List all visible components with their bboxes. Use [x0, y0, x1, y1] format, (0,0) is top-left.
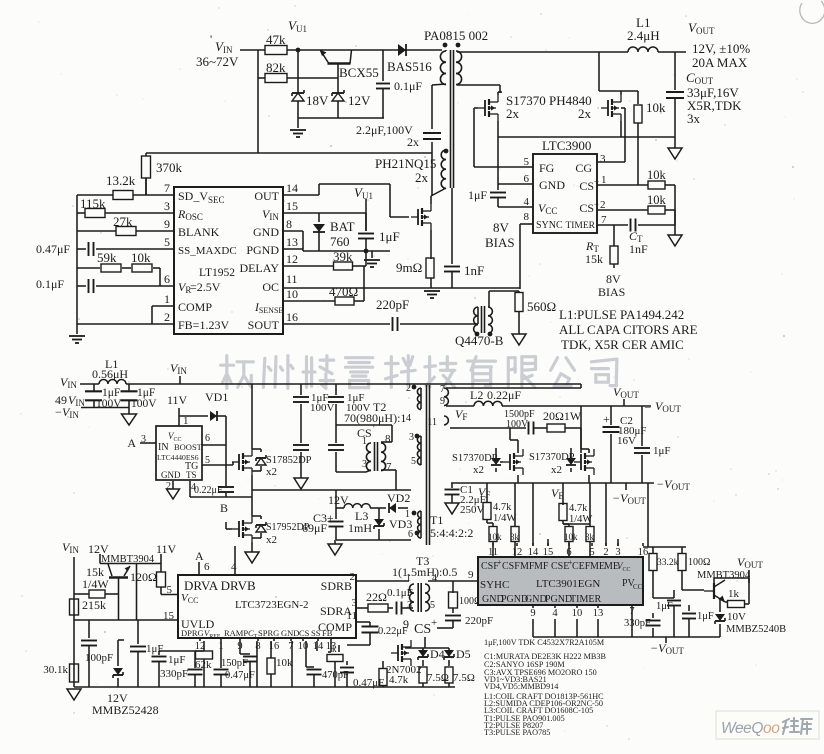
svg-text:6: 6 [524, 173, 530, 185]
svg-text:12: 12 [286, 252, 298, 266]
svg-text:−VOUT: −VOUT [656, 477, 690, 492]
svg-text:13: 13 [593, 608, 604, 619]
svg-text:3: 3 [407, 600, 412, 611]
svg-text:CSF: CSF [502, 561, 520, 572]
svg-text:8V: 8V [493, 220, 510, 235]
svg-text:370k: 370k [156, 160, 183, 175]
svg-text:1k: 1k [728, 588, 740, 600]
svg-text:D4: D4 [430, 647, 445, 661]
svg-text:9: 9 [530, 608, 535, 619]
svg-text:VF: VF [455, 407, 467, 422]
svg-text:VD2: VD2 [387, 491, 410, 505]
svg-text:1(1.5mH):0.5: 1(1.5mH):0.5 [392, 565, 457, 579]
svg-text:VF: VF [478, 485, 490, 500]
svg-text:11: 11 [286, 272, 298, 286]
svg-text:–: – [644, 401, 651, 413]
svg-text:ALL CAPA CITORS ARE: ALL CAPA CITORS ARE [559, 322, 698, 337]
svg-text:SD_V: SD_V [178, 189, 208, 203]
svg-text:1: 1 [601, 174, 607, 186]
svg-text:DPRG: DPRG [181, 628, 204, 638]
svg-text:10: 10 [572, 608, 583, 619]
svg-text:GND: GND [253, 225, 279, 239]
svg-text:4: 4 [406, 413, 411, 424]
svg-text:69μF: 69μF [302, 521, 327, 535]
svg-text:10V: 10V [727, 611, 746, 623]
svg-text:1: 1 [406, 573, 411, 584]
svg-text:WeeQoo: WeeQoo [721, 720, 780, 737]
svg-text:9: 9 [164, 217, 170, 231]
svg-text:760: 760 [330, 234, 350, 249]
svg-text:CG: CG [575, 161, 592, 175]
svg-text:SYHC: SYHC [480, 579, 509, 591]
svg-text:VIN: VIN [68, 393, 85, 408]
svg-text:BAS516: BAS516 [387, 59, 432, 74]
svg-text:CS: CS [299, 628, 310, 638]
svg-text:2: 2 [350, 571, 356, 583]
svg-text:10k: 10k [276, 657, 293, 669]
svg-text:2x: 2x [506, 106, 520, 121]
svg-text:OC: OC [262, 280, 279, 294]
svg-text:MF: MF [534, 561, 549, 572]
svg-text:70(980μH):1: 70(980μH):1 [344, 411, 406, 425]
svg-text:12V, ±10%: 12V, ±10% [692, 41, 750, 56]
svg-text:3: 3 [409, 432, 414, 443]
svg-text:16V: 16V [617, 435, 636, 447]
svg-text:TS: TS [186, 470, 197, 480]
svg-text:0.1μF: 0.1μF [36, 277, 64, 291]
svg-text:10k: 10k [564, 532, 578, 542]
svg-text:TIMER: TIMER [565, 221, 595, 231]
svg-text:L1:PULSE PA1494.242: L1:PULSE PA1494.242 [559, 307, 684, 322]
svg-text:12: 12 [512, 547, 523, 558]
svg-text:36~72V: 36~72V [196, 54, 239, 69]
svg-text:15: 15 [543, 547, 554, 558]
svg-text:COMP: COMP [178, 300, 212, 314]
svg-text:PGND: PGND [246, 243, 279, 257]
svg-text:ISENSE: ISENSE [254, 302, 283, 315]
svg-text:1nF: 1nF [629, 242, 648, 256]
svg-text:LTC3900: LTC3900 [542, 138, 591, 153]
svg-text:1μF: 1μF [168, 654, 186, 666]
svg-text:B: B [220, 501, 228, 515]
svg-text:GND: GND [161, 470, 181, 480]
svg-text:x2: x2 [473, 464, 484, 476]
svg-text:TDK, X5R CER AMIC: TDK, X5R CER AMIC [561, 337, 684, 352]
svg-text:VOUT: VOUT [613, 385, 639, 400]
svg-text:3: 3 [615, 547, 620, 558]
svg-text:BLANK: BLANK [178, 225, 220, 239]
svg-text:BIAS: BIAS [598, 285, 625, 299]
svg-text:1μF,100V TDK C4532X7R2A105M: 1μF,100V TDK C4532X7R2A105M [484, 638, 605, 647]
svg-text:6: 6 [164, 272, 170, 286]
svg-text:15: 15 [163, 610, 175, 622]
svg-text:RAMP: RAMP [224, 628, 248, 638]
svg-text:CS: CS [414, 622, 431, 637]
svg-text:MMBT3904: MMBT3904 [697, 570, 751, 581]
svg-text:+: + [603, 412, 610, 426]
svg-text:5: 5 [411, 456, 416, 467]
svg-text:16: 16 [286, 310, 298, 324]
svg-text:1μF: 1μF [468, 188, 487, 202]
svg-text:2.2μF,100V: 2.2μF,100V [356, 123, 413, 137]
svg-text:13.2k: 13.2k [106, 173, 136, 188]
svg-text:VIN: VIN [262, 207, 279, 222]
svg-text:CEF: CEF [572, 561, 591, 572]
svg-text:4.7k: 4.7k [493, 502, 512, 513]
svg-text:11: 11 [346, 610, 357, 622]
svg-text:T1: T1 [430, 513, 443, 527]
svg-text:SS_MAXDC: SS_MAXDC [178, 245, 237, 257]
svg-text:DRVA DRVB: DRVA DRVB [184, 578, 256, 593]
svg-text:2: 2 [600, 199, 606, 211]
svg-text:20A MAX: 20A MAX [692, 55, 748, 70]
svg-text:S17370DP: S17370DP [452, 453, 498, 464]
svg-text:FB=1.23V: FB=1.23V [178, 318, 229, 332]
svg-text:LTC3723EGN-2: LTC3723EGN-2 [235, 599, 309, 611]
svg-text:1mH: 1mH [348, 521, 372, 535]
svg-text:10k: 10k [488, 532, 502, 542]
svg-text:8: 8 [286, 217, 292, 231]
svg-text:4: 4 [552, 608, 558, 619]
svg-text:100pF: 100pF [85, 652, 113, 664]
svg-text:9mΩ: 9mΩ [396, 260, 422, 275]
svg-text:0.56μH: 0.56μH [92, 367, 128, 381]
svg-text:7: 7 [601, 214, 607, 226]
svg-text:S17852DP: S17852DP [266, 455, 312, 466]
svg-text:47k: 47k [266, 32, 286, 47]
svg-text:VOUT: VOUT [737, 555, 763, 570]
svg-text:4: 4 [524, 196, 530, 208]
svg-text:6: 6 [566, 547, 571, 558]
svg-text:ME: ME [590, 561, 605, 572]
svg-text:5: 5 [164, 235, 170, 249]
svg-text:100Ω: 100Ω [688, 557, 710, 568]
svg-text:120Ω: 120Ω [130, 570, 157, 584]
svg-text:9: 9 [403, 617, 409, 631]
svg-text:11: 11 [427, 417, 437, 428]
svg-text:CC: CC [633, 583, 643, 591]
svg-text:2: 2 [603, 547, 608, 558]
svg-text:0.22μF: 0.22μF [487, 388, 521, 402]
svg-text:30.1k: 30.1k [43, 664, 68, 676]
svg-text:220pF: 220pF [465, 615, 493, 627]
svg-text:k: k [332, 644, 337, 654]
svg-text:L2: L2 [470, 388, 483, 402]
svg-text:3: 3 [600, 153, 606, 165]
svg-text:FG: FG [539, 161, 555, 175]
svg-text:8: 8 [524, 211, 530, 223]
svg-text:GND: GND [539, 178, 565, 192]
svg-text:BCX55: BCX55 [339, 65, 379, 80]
svg-text:−: − [594, 199, 599, 209]
svg-text:8: 8 [255, 641, 260, 652]
svg-text:CS: CS [579, 201, 594, 215]
svg-text:7: 7 [164, 181, 170, 195]
svg-text:15k: 15k [585, 252, 603, 266]
svg-text:8: 8 [385, 433, 391, 445]
svg-text:S17370DP: S17370DP [529, 452, 575, 463]
svg-text:11V: 11V [156, 542, 177, 556]
svg-text:14: 14 [313, 641, 324, 652]
svg-text:1μF: 1μF [697, 611, 714, 622]
svg-text:A: A [127, 436, 136, 450]
svg-text:CSE: CSE [551, 561, 569, 572]
svg-text:6: 6 [408, 529, 413, 540]
svg-text:IN: IN [158, 442, 169, 453]
svg-text:−VOUT: −VOUT [650, 641, 684, 656]
svg-text:10k: 10k [131, 250, 151, 265]
svg-text:x2: x2 [266, 534, 277, 546]
svg-text:VD1: VD1 [205, 390, 228, 404]
svg-text:1/4W: 1/4W [493, 513, 516, 524]
svg-text:3k: 3k [510, 532, 520, 542]
svg-text:3: 3 [164, 199, 170, 213]
svg-text:2x: 2x [578, 106, 592, 121]
svg-text:−VOUT: −VOUT [612, 491, 646, 506]
svg-text:1/4W: 1/4W [82, 577, 109, 591]
svg-text:2x: 2x [407, 135, 419, 149]
svg-text:4: 4 [432, 573, 437, 584]
svg-text:1μF: 1μF [656, 601, 673, 612]
svg-text:ROSC: ROSC [177, 207, 203, 222]
svg-text:−: − [55, 405, 62, 419]
svg-text:6: 6 [204, 561, 210, 573]
svg-text:12V: 12V [348, 93, 371, 108]
svg-text:33.2k: 33.2k [657, 558, 679, 568]
svg-text:SPRG: SPRG [258, 628, 279, 638]
svg-text:7.5Ω: 7.5Ω [453, 672, 475, 684]
svg-text:BAT: BAT [330, 219, 355, 234]
svg-text:150pF: 150pF [221, 658, 248, 669]
svg-text:5: 5 [430, 600, 435, 611]
svg-text:3x: 3x [687, 111, 701, 126]
svg-text:PGND: PGND [545, 594, 572, 605]
svg-text:0.1μF: 0.1μF [394, 79, 422, 93]
svg-text:16: 16 [638, 547, 649, 558]
svg-text:VIN: VIN [215, 39, 233, 55]
svg-text:39k: 39k [333, 249, 353, 264]
svg-text:6: 6 [205, 433, 210, 444]
svg-text:115k: 115k [80, 196, 106, 211]
svg-text:VCC: VCC [181, 592, 198, 605]
svg-text:': ' [210, 32, 212, 46]
svg-text:A: A [195, 549, 204, 563]
svg-text:VU1: VU1 [288, 18, 307, 34]
svg-text:100V: 100V [310, 402, 335, 414]
svg-text:VIN: VIN [62, 540, 79, 555]
svg-text:x2: x2 [551, 464, 562, 476]
svg-text:MF: MF [520, 561, 535, 572]
svg-text:10k: 10k [646, 100, 666, 115]
svg-text:4: 4 [231, 561, 237, 573]
svg-text:SEC: SEC [208, 195, 225, 205]
svg-text:2: 2 [406, 383, 411, 394]
svg-text:VIN: VIN [60, 375, 77, 390]
svg-text:7: 7 [288, 641, 293, 652]
svg-text:MMBZ5240B: MMBZ5240B [726, 624, 786, 635]
svg-text:1: 1 [405, 509, 410, 520]
svg-text:9: 9 [440, 396, 445, 407]
svg-text:10k: 10k [647, 168, 667, 182]
svg-text:100V: 100V [131, 398, 157, 410]
svg-text:330pF: 330pF [160, 668, 188, 680]
svg-text:VU1: VU1 [354, 185, 373, 201]
svg-text:14: 14 [528, 547, 539, 558]
svg-text:1μF: 1μF [379, 229, 400, 244]
svg-text:250V: 250V [460, 504, 485, 516]
svg-text:SOUT: SOUT [248, 318, 280, 332]
svg-text:2x: 2x [415, 170, 429, 185]
svg-text:5: 5 [589, 547, 594, 558]
svg-text:4.7k: 4.7k [569, 503, 588, 514]
svg-text:1: 1 [164, 292, 170, 306]
svg-text:2: 2 [164, 310, 170, 324]
svg-text:5:4:4:2:2: 5:4:4:2:2 [430, 526, 473, 540]
svg-text:1nF: 1nF [464, 263, 484, 278]
svg-text:10: 10 [286, 287, 298, 301]
svg-text:1μF: 1μF [653, 445, 671, 457]
svg-text:215k: 215k [82, 598, 106, 612]
svg-text:BIAS: BIAS [485, 235, 515, 250]
svg-text:11V: 11V [167, 393, 188, 407]
svg-text:LTC3901EGN: LTC3901EGN [536, 578, 600, 590]
svg-text:D5: D5 [456, 647, 471, 661]
svg-text:470Ω: 470Ω [329, 284, 358, 299]
svg-text:+: + [431, 617, 437, 629]
svg-text:GND: GND [281, 628, 299, 638]
svg-text:5: 5 [167, 584, 173, 596]
svg-text:22Ω: 22Ω [366, 590, 387, 604]
svg-text:11: 11 [488, 547, 498, 558]
svg-text:59k: 59k [97, 250, 117, 265]
svg-text:DELAY: DELAY [239, 261, 279, 275]
svg-text:9: 9 [468, 569, 474, 581]
svg-text:2.4μH: 2.4μH [627, 28, 660, 43]
svg-text:VOUT: VOUT [688, 20, 715, 36]
svg-text:VD4,VD5:MMBD914: VD4,VD5:MMBD914 [484, 682, 558, 691]
svg-text:GND: GND [525, 594, 547, 605]
svg-text:3: 3 [352, 597, 358, 609]
svg-text:13: 13 [286, 235, 298, 249]
svg-text:T3:PULSE PAO785: T3:PULSE PAO785 [484, 728, 550, 737]
svg-text:18V: 18V [306, 93, 329, 108]
svg-text:62k: 62k [195, 659, 212, 671]
svg-text:8V: 8V [606, 272, 621, 286]
svg-text:7: 7 [386, 461, 392, 473]
svg-text:PA0815 002: PA0815 002 [424, 28, 488, 43]
svg-text:PH21NQ15: PH21NQ15 [375, 156, 436, 171]
svg-text:82k: 82k [266, 60, 286, 75]
svg-text:5: 5 [524, 156, 530, 168]
svg-text:VCC: VCC [538, 201, 557, 216]
svg-text:LT1952: LT1952 [199, 267, 235, 279]
svg-text:15: 15 [286, 199, 298, 213]
svg-text:20Ω1W: 20Ω1W [543, 409, 582, 423]
svg-text:Q4470-B: Q4470-B [455, 333, 504, 348]
svg-text:10k: 10k [647, 193, 667, 207]
svg-text:7: 7 [440, 384, 445, 395]
svg-text:SDRB: SDRB [321, 579, 352, 593]
svg-text:3k: 3k [585, 532, 595, 542]
svg-text:BOOST: BOOST [174, 442, 203, 452]
svg-text:COMP: COMP [318, 620, 352, 634]
svg-text:4.7k: 4.7k [389, 674, 409, 686]
svg-text:OUT: OUT [254, 189, 279, 203]
svg-text:1μF: 1μF [146, 643, 164, 655]
svg-text:0.1μF: 0.1μF [387, 587, 413, 599]
svg-text:SYNC: SYNC [536, 220, 563, 231]
svg-text:=2.5V: =2.5V [190, 280, 221, 294]
svg-text:220pF: 220pF [376, 297, 409, 312]
svg-text:x2: x2 [266, 466, 277, 478]
svg-text:CS: CS [579, 179, 594, 193]
svg-text:VOUT: VOUT [655, 399, 681, 414]
svg-text:MMBZ52428: MMBZ52428 [92, 703, 159, 717]
svg-text:27k: 27k [113, 214, 133, 229]
svg-text:COUT: COUT [686, 70, 714, 86]
svg-text:TIMER: TIMER [570, 594, 601, 605]
svg-text:0.47μF: 0.47μF [36, 242, 70, 256]
svg-text:560Ω: 560Ω [527, 299, 556, 314]
svg-text:14: 14 [286, 181, 298, 195]
svg-text:VIN: VIN [170, 361, 187, 376]
